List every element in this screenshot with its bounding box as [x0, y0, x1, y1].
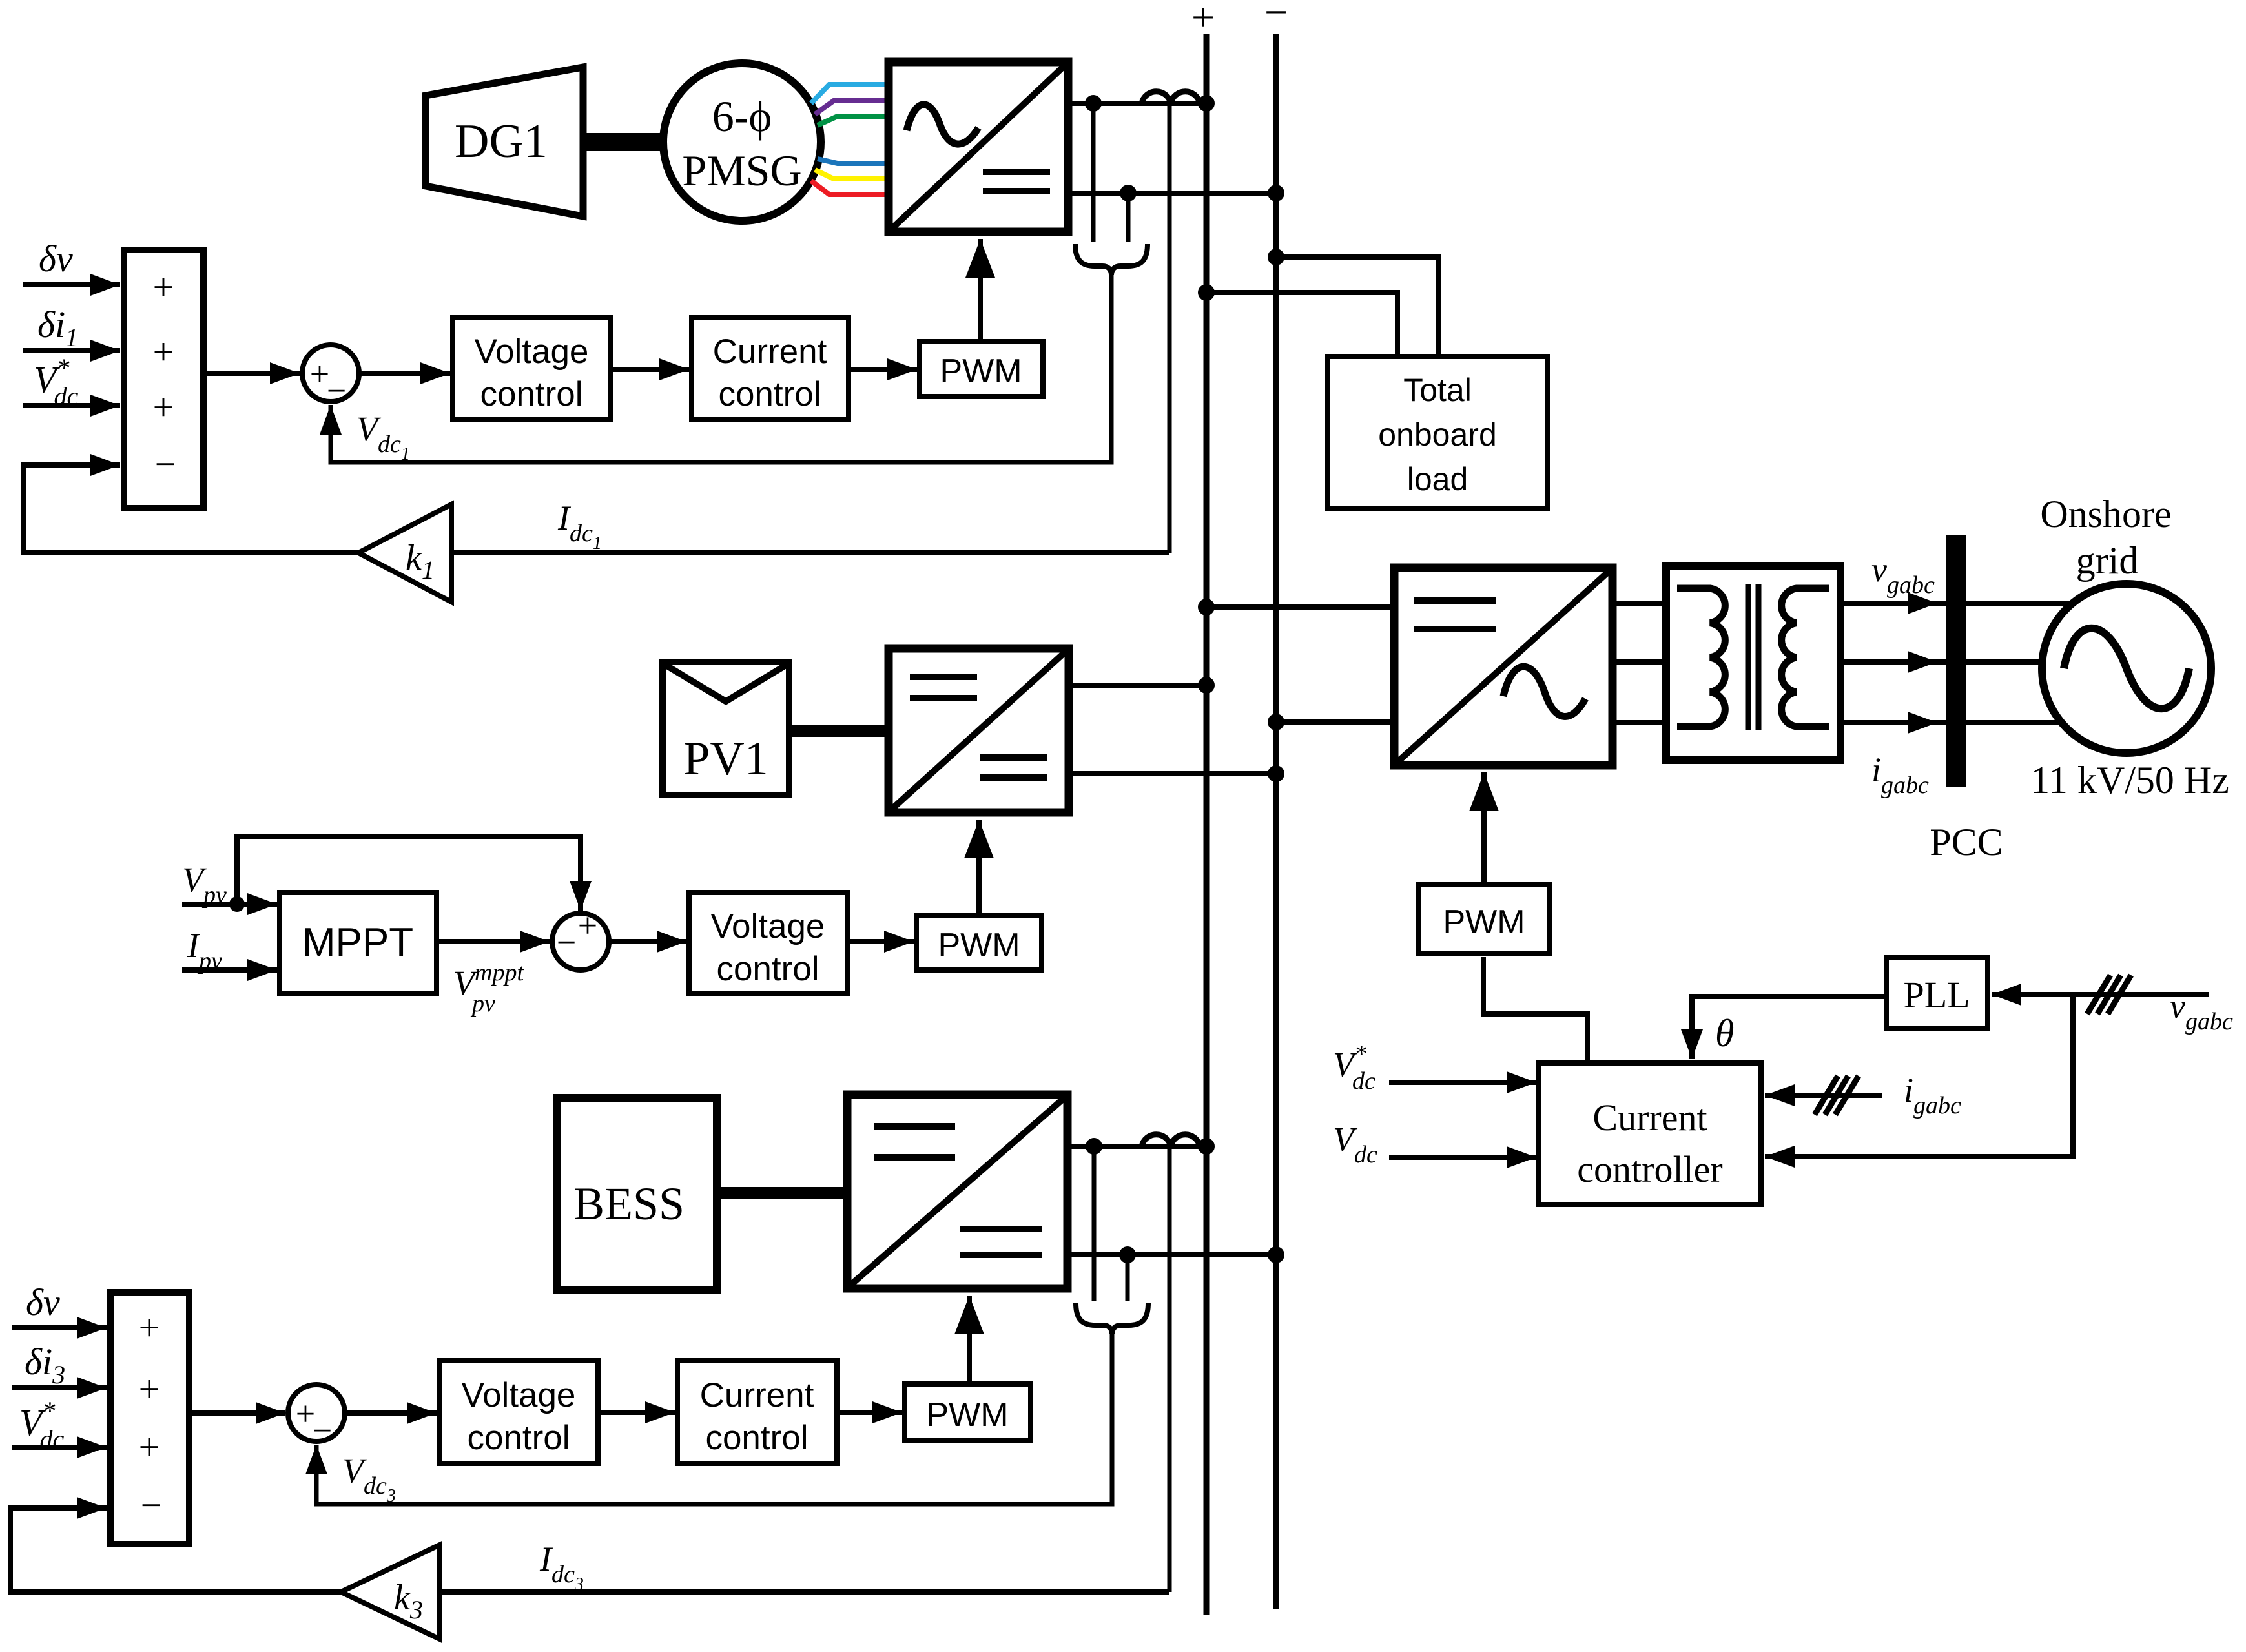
summing junction SJ3 — [288, 1385, 345, 1450]
svg-text:PWM: PWM — [938, 927, 1020, 964]
svg-text:Current: Current — [700, 1376, 814, 1414]
summing junction SJ2 — [552, 906, 609, 970]
wire igabc input to current controller — [1765, 1093, 1882, 1098]
wire - bus to load — [1276, 257, 1438, 359]
label Vdc* grid — [1333, 1040, 1375, 1095]
wire PWM3 gate signal to converter U3 — [967, 1296, 972, 1384]
wire + bus to load — [1206, 293, 1397, 359]
wire k3 output feedback to summing block 3 — [10, 1508, 341, 1592]
wire voltage sense V+ line — [1091, 103, 1096, 242]
wire k1 output feedback to summing block — [24, 465, 358, 553]
svg-text:Voltage: Voltage — [462, 1376, 576, 1414]
svg-text:MPPT: MPPT — [302, 920, 413, 965]
wire U2 positive output to + bus — [1069, 683, 1206, 688]
node junction on + bus — [1198, 95, 1215, 112]
label Vpv mppt — [453, 959, 524, 1017]
node junction - bus to grid converter — [1268, 714, 1284, 730]
label Vdc grid — [1333, 1120, 1377, 1168]
svg-text:PV1: PV1 — [683, 732, 768, 785]
label di3 — [25, 1341, 65, 1389]
svg-text:Voltage: Voltage — [475, 333, 589, 371]
node junction + bus to grid converter — [1198, 599, 1215, 615]
wire U2 negative output to - bus — [1069, 771, 1276, 776]
brace measurement Vdc3 — [1076, 1303, 1148, 1334]
label Vdc* — [34, 353, 78, 411]
block current controller — [1539, 1063, 1761, 1204]
wire - bus to grid converter — [1276, 719, 1394, 725]
svg-text:−: − — [557, 923, 576, 962]
svg-text:+: + — [1191, 0, 1215, 40]
svg-text:PWM: PWM — [940, 353, 1022, 390]
block voltage control 1 — [453, 318, 611, 419]
label dv BESS — [26, 1281, 60, 1323]
node junction U3+ sense — [1086, 1138, 1102, 1155]
wire shaft DG1 to PMSG — [580, 133, 665, 151]
block Total onboard load — [1328, 356, 1547, 509]
label Ipv — [187, 926, 222, 975]
svg-text:Current: Current — [713, 333, 827, 371]
svg-text:PLL: PLL — [1903, 974, 1970, 1016]
wire input Vdc* — [23, 403, 120, 408]
summing junction SJ1 — [302, 345, 359, 410]
source BESS battery energy storage — [557, 1098, 717, 1290]
busbar PCC — [1930, 535, 2003, 863]
node junction - bus BESS — [1268, 1246, 1284, 1263]
svg-text:control: control — [705, 1419, 808, 1457]
svg-text:BESS: BESS — [573, 1178, 685, 1230]
wire voltage sense V- line BESS — [1126, 1255, 1130, 1301]
svg-text:δv: δv — [26, 1281, 60, 1323]
wire SJ3 to voltage control 3 — [345, 1410, 437, 1416]
wire Vdc1 feedback — [331, 274, 1111, 462]
wire Idc1 to gain k1 — [451, 550, 1169, 555]
svg-text:6-ϕ: 6-ϕ — [712, 92, 772, 141]
block PWM3 — [905, 1384, 1031, 1440]
svg-text:11 kV/50 Hz: 11 kV/50 Hz — [2030, 759, 2229, 801]
wire U4 phase c to transformer — [1612, 720, 1666, 725]
wire transformer phase b to PCC — [1840, 659, 1946, 665]
wire voltage control 2 to PWM2 — [847, 939, 914, 944]
svg-text:PWM: PWM — [926, 1396, 1008, 1434]
label di1 — [37, 304, 78, 352]
svg-text:controller: controller — [1577, 1148, 1722, 1190]
wire current tap Idc1 — [1168, 105, 1172, 553]
label dv — [39, 238, 73, 280]
svg-text:control: control — [467, 1419, 570, 1457]
wire input di3 — [12, 1385, 107, 1390]
svg-text:−: − — [327, 371, 346, 410]
block PLL — [1886, 958, 1988, 1029]
wire input di1 — [23, 348, 120, 353]
label igabc input — [1904, 1071, 1961, 1119]
wire theta PLL to current controller — [1692, 996, 1886, 1059]
svg-text:PCC: PCC — [1930, 821, 2003, 863]
gain k1 — [358, 504, 451, 602]
wire phase x (blue) — [818, 159, 889, 163]
converter U3 bidirectional DC-DC for BESS — [847, 1095, 1067, 1288]
wire PWM2 gate signal to converter U2 — [976, 820, 982, 916]
svg-text:onboard: onboard — [1378, 417, 1497, 453]
svg-text:PMSG: PMSG — [682, 146, 801, 195]
svg-text:−: − — [313, 1411, 332, 1450]
wire Vpv feedforward to summing junction — [237, 836, 581, 911]
block PWM2 — [916, 916, 1042, 970]
node junction - bus PV — [1268, 765, 1284, 782]
wire input Vpv — [182, 902, 277, 907]
wire voltage sense V+ line BESS — [1092, 1146, 1097, 1301]
wire U3 positive output to + bus — [1067, 1144, 1206, 1149]
svg-text:+: + — [153, 331, 174, 373]
label 11 kV/50 Hz — [2030, 759, 2229, 801]
gain k3 — [341, 1545, 440, 1639]
svg-text:+: + — [153, 386, 174, 428]
wire phase a (cyan) — [811, 85, 889, 103]
block current control 1 — [692, 318, 849, 420]
node junction U1- sense — [1120, 185, 1137, 201]
svg-text:−: − — [141, 1484, 162, 1526]
wire input Ipv — [182, 967, 277, 973]
converter U4 grid-side DC-AC inverter — [1394, 568, 1612, 765]
svg-text:control: control — [480, 375, 582, 413]
summing block S3 droop summation BESS — [110, 1292, 189, 1544]
svg-text:DG1: DG1 — [455, 115, 548, 168]
label Idc3 — [539, 1540, 584, 1595]
wire input Vdc* BESS — [12, 1445, 107, 1450]
brace measurement Vdc1 — [1075, 244, 1148, 275]
wire PCC to grid phase b — [1966, 659, 2044, 665]
svg-text:+: + — [153, 266, 174, 308]
svg-text:Onshore: Onshore — [2040, 493, 2171, 535]
inductor L3 — [1142, 1135, 1200, 1146]
wire SJ2 to voltage control 2 — [609, 939, 686, 944]
slash marks vgabc three-phase — [2087, 975, 2131, 1014]
converter U2 DC-DC boost for PV — [889, 648, 1069, 812]
block voltage control 3 — [439, 1361, 598, 1463]
wire voltage control 3 to current control 3 — [598, 1410, 675, 1415]
node + DC bus positive rail — [1191, 0, 1215, 1615]
wire U4 phase b to transformer — [1612, 659, 1666, 665]
wire U3 negative output to - bus — [1067, 1252, 1276, 1257]
svg-text:−: − — [155, 443, 176, 485]
wire PV1 to converter U2 — [789, 725, 889, 737]
label Onshore grid — [2040, 493, 2171, 582]
label Vpv — [182, 860, 227, 909]
svg-text:+: + — [578, 906, 597, 945]
wire converter U1 negative output to - bus — [1068, 191, 1276, 196]
wire summing block 3 output — [189, 1410, 285, 1416]
wire phase b (purple) — [815, 101, 889, 114]
node junction U1+ sense — [1085, 95, 1102, 112]
wire transformer phase a to PCC — [1840, 601, 1946, 606]
wire BESS to converter U3 — [717, 1187, 847, 1199]
wire PCC to grid phase a — [1966, 601, 2077, 606]
svg-text:δv: δv — [39, 238, 73, 280]
transformer T1 — [1666, 566, 1840, 760]
block MPPT — [280, 893, 437, 994]
svg-text:Current: Current — [1592, 1097, 1707, 1139]
wire PCC to grid phase c — [1966, 720, 2063, 725]
label vgabc input — [2170, 987, 2233, 1035]
node junction - bus to load — [1268, 249, 1284, 265]
wire MPPT output to summing junction — [437, 939, 550, 944]
wire SJ1 to voltage control — [359, 371, 450, 376]
source PV1 photovoltaic array — [663, 662, 789, 795]
svg-text:load: load — [1407, 461, 1468, 497]
converter U1 AC-DC rectifier for PMSG — [889, 62, 1068, 232]
node junction + bus PV — [1198, 677, 1215, 694]
wire transformer phase c to PCC — [1840, 720, 1946, 725]
wire Vdc3 feedback — [316, 1333, 1112, 1504]
svg-text:+: + — [139, 1306, 160, 1348]
label vgabc transformer output — [1871, 550, 1935, 599]
svg-text:+: + — [139, 1426, 160, 1468]
wire + bus to grid converter — [1206, 604, 1394, 610]
wire voltage control to current control — [611, 367, 689, 372]
label Vdc* BESS — [19, 1396, 64, 1454]
svg-text:PWM: PWM — [1443, 903, 1525, 941]
label Vdc1 — [356, 409, 410, 464]
label Idc1 — [557, 499, 602, 553]
node junction + bus BESS — [1198, 1138, 1215, 1155]
node junction + bus to load — [1198, 284, 1215, 301]
block PWM grid — [1419, 884, 1549, 954]
wire vgabc input to PLL — [1992, 992, 2209, 997]
slash marks igabc three-phase — [1815, 1076, 1859, 1115]
wire Idc3 to gain k3 — [440, 1589, 1169, 1595]
wire Vdc* input to current controller — [1389, 1080, 1536, 1085]
generator DG1 prime mover — [426, 67, 583, 216]
node junction on - bus — [1268, 185, 1284, 201]
wire input dv — [23, 282, 120, 287]
wire PWM grid gate signal to converter U4 — [1481, 772, 1487, 884]
wire phase z (red) — [811, 181, 889, 194]
svg-text:control: control — [716, 950, 819, 988]
svg-text:control: control — [718, 375, 821, 413]
block PWM1 — [920, 342, 1043, 397]
source onshore grid — [2042, 584, 2211, 753]
wire current control to PWM1 — [849, 367, 917, 372]
wire vgabc branch to current controller — [1765, 995, 2073, 1157]
wire phase y (yellow) — [815, 170, 889, 179]
svg-text:+: + — [139, 1368, 160, 1410]
label Vdc3 — [342, 1451, 396, 1506]
wire current tap Idc3 — [1168, 1148, 1172, 1592]
svg-text:grid: grid — [2076, 539, 2139, 582]
svg-text:θ: θ — [1715, 1012, 1734, 1055]
node - DC bus negative rail — [1264, 0, 1288, 1609]
wire summing block output — [203, 371, 300, 376]
svg-text:−: − — [1264, 0, 1288, 35]
node junction Vpv tap — [229, 896, 245, 912]
inductor L1 — [1142, 92, 1200, 103]
wire PWM1 gate signal to converter U1 — [978, 239, 983, 342]
machine 6-phase PMSG — [663, 63, 821, 221]
node junction U3- sense — [1119, 1246, 1136, 1263]
wire Vdc input to current controller — [1389, 1155, 1536, 1160]
label theta — [1715, 1012, 1734, 1055]
wire converter U1 positive output to + bus — [1068, 101, 1206, 106]
wire current controller output to PWM grid — [1483, 957, 1587, 1063]
summing block S1 droop summation — [124, 250, 203, 508]
svg-text:Voltage: Voltage — [711, 907, 825, 945]
block current control 3 — [677, 1361, 837, 1463]
wire current control 3 to PWM3 — [837, 1410, 902, 1415]
svg-text:Total: Total — [1403, 372, 1472, 408]
wire phase c (green) — [818, 116, 889, 125]
wire voltage sense V- line — [1126, 193, 1131, 242]
wire input dv BESS — [12, 1325, 107, 1330]
wire U4 phase a to transformer — [1612, 601, 1666, 606]
block voltage control 2 — [689, 893, 847, 994]
label igabc transformer output — [1871, 750, 1929, 799]
